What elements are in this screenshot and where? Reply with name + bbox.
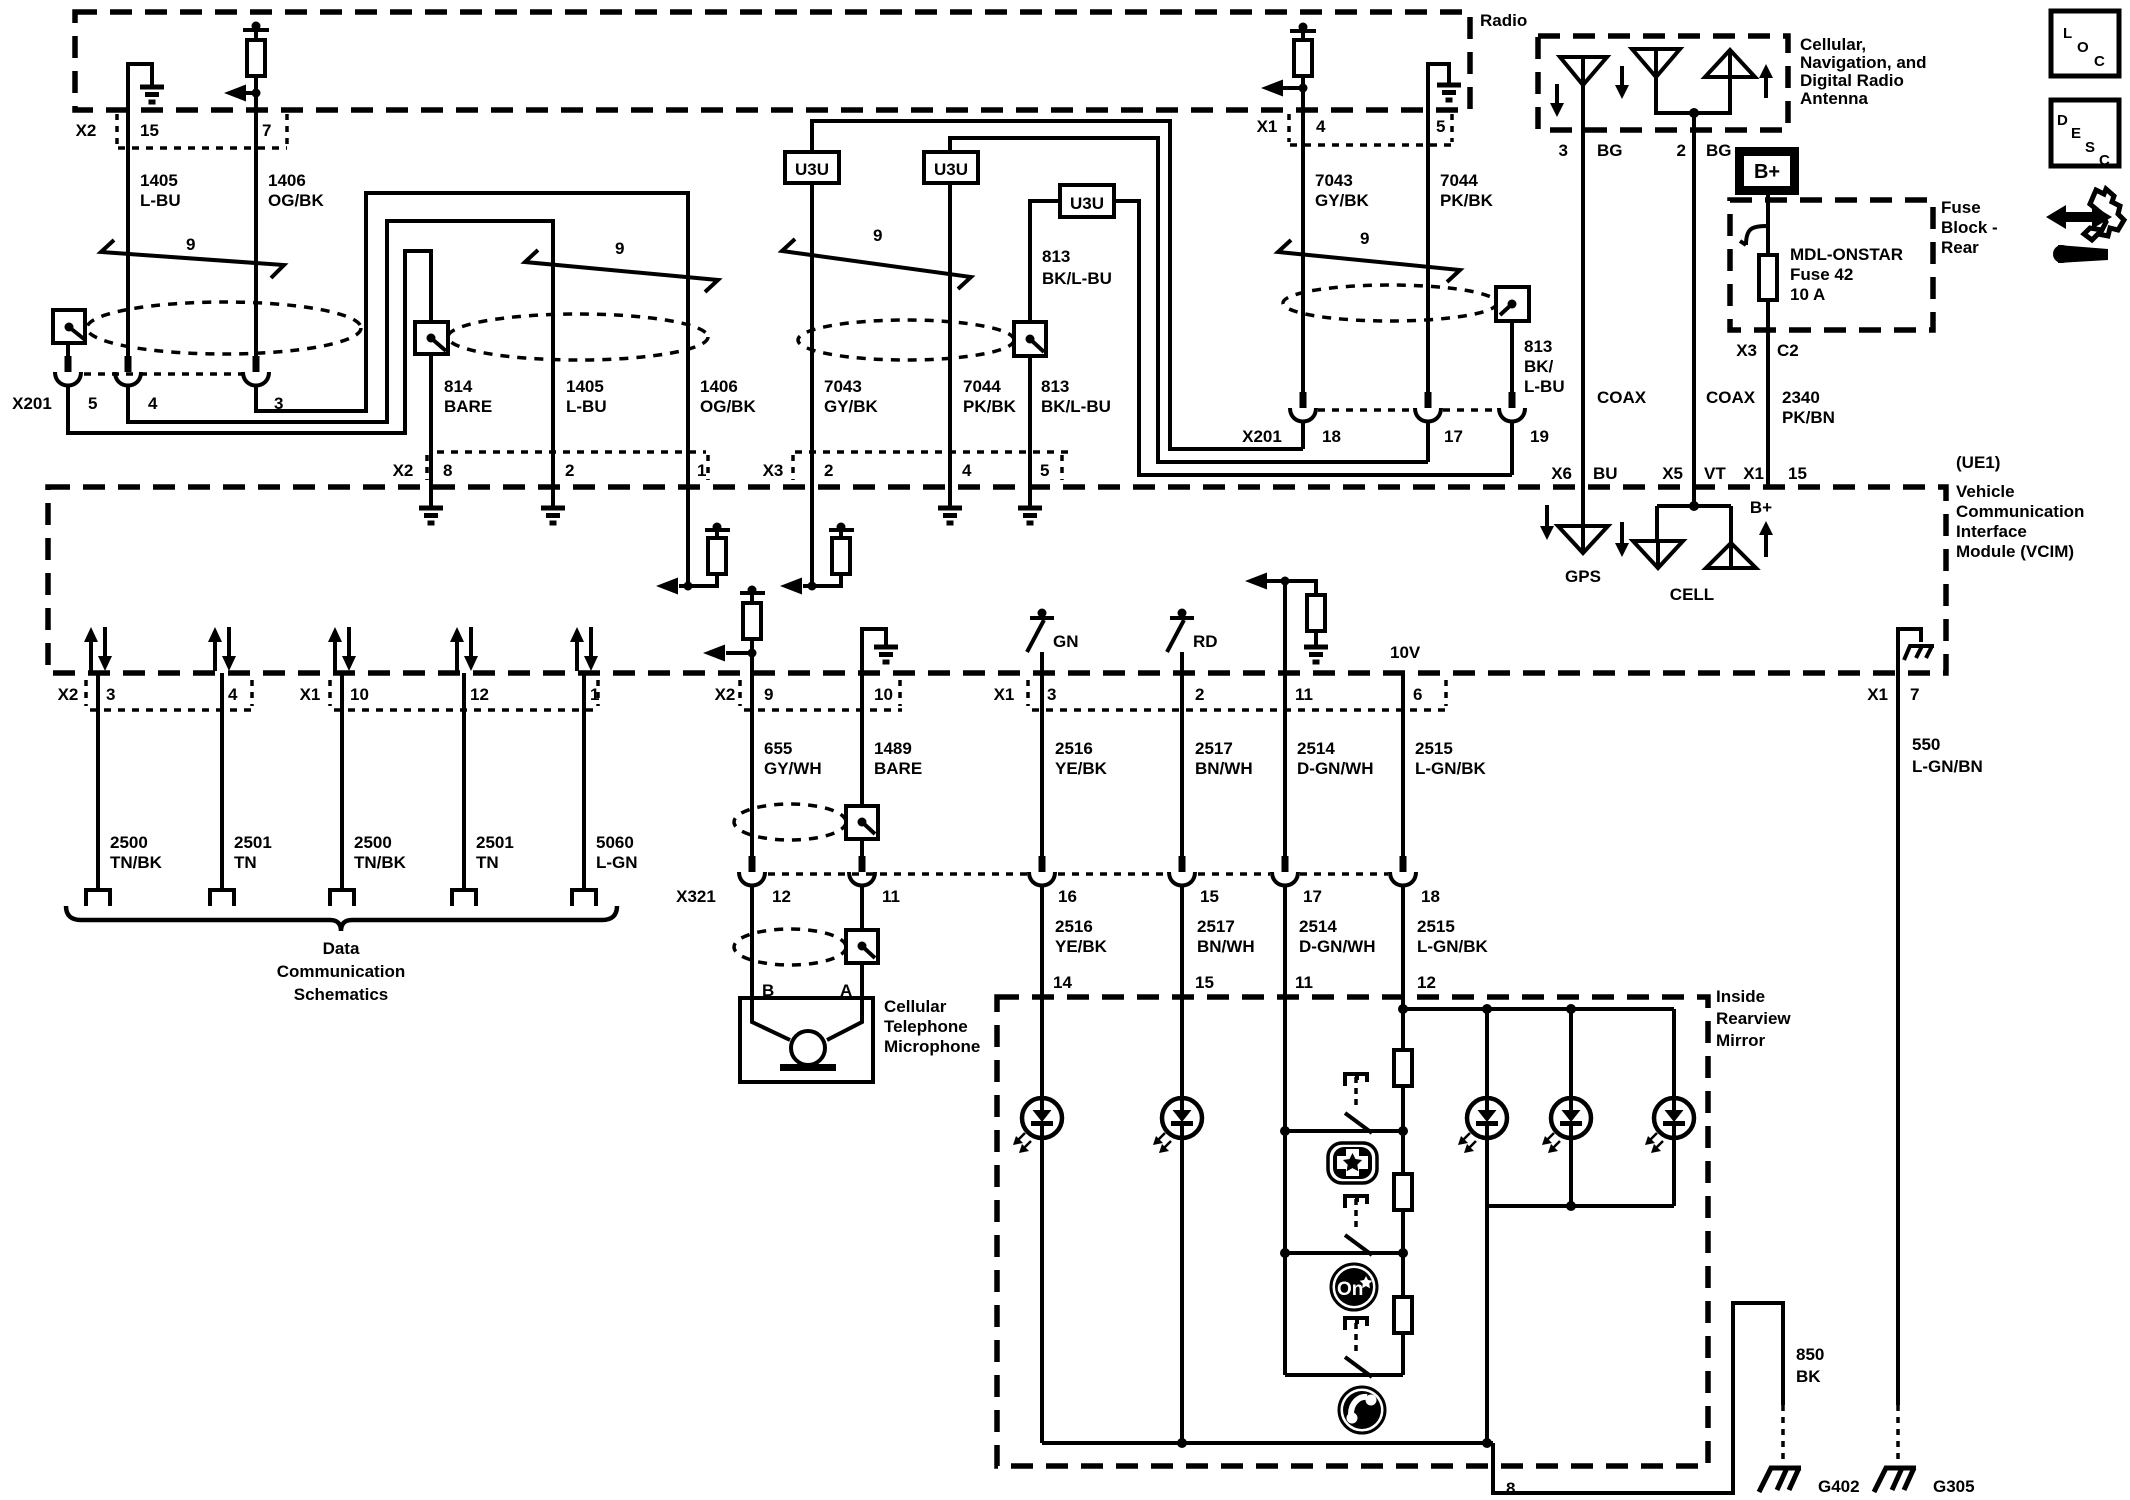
svg-text:Cellular,: Cellular,	[1800, 35, 1866, 54]
svg-text:C: C	[2099, 152, 2110, 169]
wire 7043 GY/BK (radio X1:4 to X201:18)	[1301, 110, 1305, 392]
svg-text:7044: 7044	[963, 377, 1001, 396]
svg-text:2517: 2517	[1195, 739, 1233, 758]
svg-text:2: 2	[565, 461, 574, 480]
LED (map lamp 1)	[1458, 1009, 1507, 1206]
svg-text:9: 9	[1360, 229, 1369, 248]
shield drain box (left, 814)	[53, 310, 85, 357]
svg-text:L-GN/BN: L-GN/BN	[1912, 757, 1983, 776]
label Fuse Block - Rear	[1941, 198, 1998, 257]
svg-text:813: 813	[1042, 247, 1070, 266]
wire 550 L-GN/BN (X1:7 to G305)	[1898, 673, 1983, 1462]
DESC reference box	[2051, 100, 2119, 169]
svg-text:X2: X2	[58, 685, 79, 704]
svg-text:Navigation, and: Navigation, and	[1800, 53, 1927, 72]
ground (radio internal, pin X2:15)	[128, 64, 164, 110]
svg-text:X201: X201	[12, 394, 52, 413]
svg-text:Schematics: Schematics	[294, 985, 389, 1004]
twisted pair marker 9 (U3U)	[782, 226, 971, 289]
arrow down (CELL)	[1615, 522, 1629, 557]
svg-text:Mirror: Mirror	[1716, 1031, 1766, 1050]
antenna cellular (funnel)	[1560, 57, 1607, 85]
arrow up and B+ (VCIM internal X1:15)	[1750, 498, 1773, 557]
wire 850 BK (mirror pin 8 to G402)	[1493, 1303, 1783, 1498]
svg-text:4: 4	[228, 685, 238, 704]
wire COAX 2 (antenna to VCIM X5)	[1692, 113, 1696, 488]
svg-text:E: E	[2071, 125, 2081, 142]
wire stubs below X201 right cups	[1303, 421, 1512, 475]
svg-text:17: 17	[1303, 887, 1322, 906]
svg-text:10V: 10V	[1390, 643, 1421, 662]
svg-text:813: 813	[1524, 337, 1552, 356]
svg-text:U3U: U3U	[934, 160, 968, 179]
svg-text:Communication: Communication	[277, 962, 405, 981]
svg-text:11: 11	[1295, 973, 1313, 992]
svg-text:Communication: Communication	[1956, 502, 2084, 521]
svg-text:18: 18	[1421, 887, 1440, 906]
arrow down (GPS)	[1540, 505, 1554, 540]
svg-text:PK/BK: PK/BK	[963, 397, 1017, 416]
svg-text:C2: C2	[1777, 341, 1799, 360]
svg-text:11: 11	[1295, 685, 1313, 704]
svg-text:19: 19	[1530, 427, 1549, 446]
label 1405 L-BU	[140, 171, 181, 210]
wire COAX 1 (antenna to VCIM X6)	[1581, 85, 1585, 488]
twisted pair marker 9 (right)	[1278, 229, 1460, 282]
svg-text:Vehicle: Vehicle	[1956, 482, 2015, 501]
button OnStar (mirror)	[1331, 1264, 1377, 1310]
wire B+ to fuse	[1766, 195, 1770, 255]
connector dotted line X2/X3	[437, 450, 1075, 454]
terminal (2500 b)	[330, 890, 354, 906]
resistor (2515 rail mid)	[1394, 1131, 1412, 1253]
switch rung 2 (mirror)	[1280, 1196, 1408, 1258]
label 7044 PK/BK	[1440, 171, 1494, 210]
svg-text:RD: RD	[1193, 632, 1218, 651]
svg-text:C: C	[2094, 53, 2105, 70]
svg-text:On: On	[1337, 1279, 1363, 1300]
data arrows (VCIM internal, X2:3)	[84, 627, 112, 671]
Cellular Navigation Digital Radio Antenna box	[1538, 36, 1788, 130]
svg-text:813: 813	[1041, 377, 1069, 396]
svg-text:2517: 2517	[1197, 917, 1235, 936]
resistor to ground and arrow (VCIM internal, X1:11)	[1245, 573, 1328, 674]
antenna navigation (funnel)	[1632, 49, 1680, 77]
termination resistor and arrow (VCIM internal, X3:2)	[780, 487, 854, 595]
svg-text:BK/: BK/	[1524, 357, 1554, 376]
label 813 BK/ L-BU	[1524, 337, 1565, 396]
label 7044 PK/BK (above X3:4)	[963, 377, 1017, 416]
svg-text:BG: BG	[1597, 141, 1623, 160]
svg-text:15: 15	[1788, 464, 1807, 483]
wire 2500 TN/BK (X2:3)	[98, 673, 163, 890]
label (UE1) VCIM	[1956, 453, 2084, 561]
wire 7043 (U3U1 to X201:18 and X3:2)	[812, 121, 1303, 487]
B+ battery feed box	[1735, 147, 1799, 195]
connector X1 (VCIM bottom mid): pins 3, 2, 11, 6	[994, 680, 1448, 710]
data arrows (VCIM internal, X2:4)	[208, 627, 236, 671]
shield ellipse (left)	[87, 302, 361, 354]
svg-text:COAX: COAX	[1597, 388, 1647, 407]
svg-text:L: L	[2063, 25, 2072, 42]
svg-text:2516: 2516	[1055, 917, 1093, 936]
svg-text:G402: G402	[1818, 1477, 1860, 1496]
svg-text:850: 850	[1796, 1345, 1824, 1364]
svg-text:BK/L-BU: BK/L-BU	[1042, 269, 1112, 288]
svg-text:VT: VT	[1704, 464, 1726, 483]
shield drain box (mid, 814)	[415, 322, 448, 354]
navigation icon (arrow and wrench)	[2046, 189, 2124, 263]
shield ellipse (right)	[1283, 285, 1497, 321]
svg-text:Rear: Rear	[1941, 238, 1979, 257]
svg-text:PK/BN: PK/BN	[1782, 408, 1835, 427]
ground (VCIM internal, X2:8)	[419, 487, 443, 523]
svg-text:BK/L-BU: BK/L-BU	[1041, 397, 1111, 416]
svg-text:X1: X1	[1743, 464, 1764, 483]
shield drain box (813 at X201)	[1496, 287, 1529, 321]
data arrows (VCIM internal, X1:10)	[328, 627, 356, 671]
labels X201 18 17 19	[1242, 427, 1549, 446]
label 850 BK	[1796, 1345, 1824, 1386]
svg-text:5: 5	[88, 394, 97, 413]
shield ellipse (U3U)	[798, 320, 1014, 360]
svg-text:14: 14	[1053, 973, 1072, 992]
svg-text:BK: BK	[1796, 1367, 1821, 1386]
svg-text:9: 9	[873, 226, 882, 245]
svg-text:5060: 5060	[596, 833, 634, 852]
Cellular Telephone Microphone box	[740, 997, 980, 1082]
label Radio	[1480, 11, 1527, 30]
connector X2 (VCIM bottom mid): pins 9, 10	[715, 680, 902, 710]
svg-text:1: 1	[697, 461, 706, 480]
svg-text:L-BU: L-BU	[1524, 377, 1565, 396]
label 7043 GY/BK	[1315, 171, 1370, 210]
brace Data Communication Schematics	[66, 906, 617, 1004]
svg-text:Fuse: Fuse	[1941, 198, 1981, 217]
ground G402	[1759, 1468, 1860, 1496]
VCIM box	[48, 487, 1946, 673]
svg-text:7044: 7044	[1440, 171, 1478, 190]
svg-text:1489: 1489	[874, 739, 912, 758]
labels X321 12 11 16 15 17 18	[676, 887, 1440, 906]
svg-text:PK/BK: PK/BK	[1440, 191, 1494, 210]
terminal (2500)	[86, 890, 110, 906]
resistor (radio internal, pin X1:4)	[1290, 23, 1316, 111]
svg-text:X3: X3	[1736, 341, 1757, 360]
svg-text:Data: Data	[323, 939, 360, 958]
arrow down (antenna 1)	[1550, 84, 1564, 117]
labels X201 5 4 3	[12, 394, 283, 413]
svg-text:YE/BK: YE/BK	[1055, 937, 1108, 956]
svg-text:OG/BK: OG/BK	[268, 191, 324, 210]
resistor (2515 rail top)	[1394, 1009, 1412, 1131]
svg-text:L-GN/BK: L-GN/BK	[1417, 937, 1489, 956]
resistor (2515 rail low)	[1394, 1253, 1412, 1375]
shield drain box (1489 lower)	[846, 930, 878, 963]
svg-text:L-GN/BK: L-GN/BK	[1415, 759, 1487, 778]
pins 3 BG / 2 BG	[1559, 141, 1732, 160]
svg-text:TN/BK: TN/BK	[110, 853, 163, 872]
label antenna box	[1800, 35, 1927, 108]
shield drain box (1489 upper)	[846, 806, 878, 839]
wire 2340 PK/BN (fuse to VCIM X1:15)	[1766, 300, 1770, 488]
svg-text:(UE1): (UE1)	[1956, 453, 2000, 472]
wire 1489 A (X321:11 to microphone)	[860, 885, 864, 998]
label 814 BARE	[444, 377, 492, 416]
wire 655 GY/WH (X2:9 to X321:12)	[752, 673, 822, 856]
button phone (mirror)	[1339, 1387, 1385, 1433]
wire 2516 YE/BK (X1:3 to X321:16)	[1042, 673, 1108, 856]
connector X1 (VCIM bottom): pins 10, 12, 1	[300, 680, 600, 710]
wire 5060 L-GN (X1:1)	[584, 673, 638, 890]
svg-text:3: 3	[106, 685, 115, 704]
arrow (signal continues, radio pin X1:4)	[1261, 80, 1308, 97]
svg-text:X6: X6	[1551, 464, 1572, 483]
svg-text:X2: X2	[393, 461, 414, 480]
svg-text:Telephone: Telephone	[884, 1017, 968, 1036]
antenna digital radio (up triangle)	[1705, 50, 1755, 77]
svg-text:Inside: Inside	[1716, 987, 1765, 1006]
bus hook (fuse block)	[1740, 226, 1768, 245]
svg-text:655: 655	[764, 739, 792, 758]
svg-text:8: 8	[443, 461, 452, 480]
wire 2517 BN/WH (X321:15 to mirror 15)	[1182, 885, 1255, 1099]
svg-text:X1: X1	[1867, 685, 1888, 704]
GN switch (VCIM internal, X1:3)	[1027, 609, 1079, 674]
svg-text:3: 3	[1559, 141, 1568, 160]
svg-text:9: 9	[615, 239, 624, 258]
label 1405 L-BU	[566, 377, 607, 416]
label 813 BK/L-BU (above X3:5)	[1041, 377, 1111, 416]
junction 2515 branch	[1398, 1004, 1674, 1014]
CELL antenna (VCIM internal)	[1633, 488, 1756, 604]
svg-text:2: 2	[1195, 685, 1204, 704]
connector X321: caps and cups	[739, 856, 1416, 886]
svg-text:2514: 2514	[1299, 917, 1337, 936]
svg-text:814: 814	[444, 377, 473, 396]
connector X1:7 (VCIM bottom right)	[1867, 685, 1919, 704]
svg-text:X1: X1	[300, 685, 321, 704]
svg-text:Module (VCIM): Module (VCIM)	[1956, 542, 2074, 561]
pins B A	[762, 981, 852, 1000]
svg-text:Radio: Radio	[1480, 11, 1527, 30]
wire 813 (shield box to X201:19)	[1510, 321, 1514, 392]
wire antenna join	[1656, 77, 1730, 118]
svg-text:6: 6	[1413, 685, 1422, 704]
GPS antenna (VCIM internal)	[1558, 488, 1608, 586]
wire 2514 D-GN/WH (X321:17 to mirror 11)	[1285, 885, 1375, 1375]
twisted pair marker 9 (mid)	[525, 239, 718, 292]
fuse MDL-ONSTAR Fuse 42 10A	[1759, 245, 1903, 304]
svg-text:BARE: BARE	[444, 397, 492, 416]
svg-text:7: 7	[1910, 685, 1919, 704]
wire 814 BARE (X201:5 to X2:8)	[68, 251, 431, 487]
svg-text:U3U: U3U	[1070, 194, 1104, 213]
wire 2501 TN (X2:4)	[222, 673, 272, 890]
svg-text:550: 550	[1912, 735, 1940, 754]
svg-text:X5: X5	[1662, 464, 1683, 483]
arrow (signal continues, radio pin X2:7)	[224, 85, 261, 102]
wire 7044 (U3U2 to X201:17 and X3:4)	[950, 138, 1428, 487]
svg-text:4: 4	[1316, 117, 1326, 136]
svg-text:2: 2	[1677, 141, 1686, 160]
svg-text:2500: 2500	[354, 833, 392, 852]
wire 2501 TN (X1:12)	[464, 673, 514, 890]
label 813 BK/L-BU (upper)	[1042, 247, 1112, 288]
terminal (2501 b)	[452, 890, 476, 906]
termination resistor and arrow (VCIM internal, X2:9)	[703, 586, 765, 674]
twisted pair marker 9 (left)	[101, 235, 284, 278]
label 7043 GY/BK (above X3:2)	[824, 377, 879, 416]
label 1406 OG/BK	[700, 377, 756, 416]
svg-text:GY/BK: GY/BK	[1315, 191, 1370, 210]
wire 1406 (X201:3 to X2:1)	[256, 193, 688, 487]
U3U option box 3	[1060, 185, 1114, 217]
wire 1405 (X201:4 to X2:2)	[128, 221, 553, 487]
svg-text:D-GN/WH: D-GN/WH	[1299, 937, 1375, 956]
wire 1489 BARE (X2:10 to X321:11)	[862, 673, 922, 856]
svg-text:5: 5	[1040, 461, 1049, 480]
svg-text:15: 15	[140, 121, 159, 140]
svg-text:Rearview: Rearview	[1716, 1009, 1791, 1028]
svg-text:1406: 1406	[700, 377, 738, 396]
data arrows (VCIM internal, X1:1)	[570, 627, 598, 671]
terminal (5060)	[572, 890, 596, 906]
svg-text:2516: 2516	[1055, 739, 1093, 758]
svg-text:7043: 7043	[824, 377, 862, 396]
label Inside Rearview Mirror	[1716, 987, 1791, 1050]
shield ellipse (mid)	[448, 314, 708, 360]
svg-text:OG/BK: OG/BK	[700, 397, 756, 416]
svg-text:TN: TN	[476, 853, 499, 872]
ground (VCIM internal, X3:5)	[1018, 487, 1042, 523]
svg-text:X1: X1	[994, 685, 1015, 704]
svg-text:2340: 2340	[1782, 388, 1820, 407]
LED (map lamp 3)	[1645, 1009, 1694, 1206]
svg-text:L-BU: L-BU	[140, 191, 181, 210]
svg-text:L-BU: L-BU	[566, 397, 607, 416]
label 10V (X1:6)	[1390, 643, 1421, 662]
LED bottom bus	[1487, 1201, 1674, 1443]
wire 2515 L-GN/BK (X321:18 to mirror 12)	[1403, 885, 1489, 1048]
connector X2 (VCIM bottom): pins 3, 4	[58, 680, 256, 710]
svg-text:Interface: Interface	[1956, 522, 2027, 541]
svg-text:10: 10	[350, 685, 369, 704]
wire 2500 TN/BK (X1:10)	[342, 673, 407, 890]
shield ellipse (655/1489 lower)	[734, 929, 846, 965]
svg-text:10 A: 10 A	[1790, 285, 1825, 304]
LED (mirror, wire 15)	[1153, 1098, 1202, 1443]
pins X3 C2	[1736, 341, 1799, 360]
svg-text:D-GN/WH: D-GN/WH	[1297, 759, 1373, 778]
svg-text:9: 9	[764, 685, 773, 704]
U3U option box 2	[924, 152, 978, 183]
microphone symbol	[752, 998, 862, 1071]
svg-text:BU: BU	[1593, 464, 1618, 483]
terminal (2501)	[210, 890, 234, 906]
LED (map lamp 2)	[1542, 1009, 1591, 1206]
svg-text:4: 4	[962, 461, 972, 480]
connector X1 (radio): pins 4, 5	[1257, 114, 1452, 145]
svg-text:X3: X3	[763, 461, 784, 480]
wire 7044 PK/BK (radio X1:5 to X201:17)	[1426, 110, 1430, 392]
svg-text:2515: 2515	[1415, 739, 1453, 758]
svg-text:G305: G305	[1933, 1477, 1975, 1496]
svg-text:1406: 1406	[268, 171, 306, 190]
svg-text:YE/BK: YE/BK	[1055, 759, 1108, 778]
connector X2 (VCIM): pins 8, 2, 1	[393, 455, 708, 480]
connector X2 (radio): pins 15, 7	[76, 114, 287, 148]
svg-text:2515: 2515	[1417, 917, 1455, 936]
svg-text:CELL: CELL	[1670, 585, 1714, 604]
shield drain box (813 at X3)	[1014, 322, 1046, 356]
svg-text:BN/WH: BN/WH	[1197, 937, 1255, 956]
svg-text:X2: X2	[715, 685, 736, 704]
svg-text:B+: B+	[1754, 161, 1780, 183]
resistor (radio internal, pin X2:7)	[243, 22, 269, 111]
svg-text:2501: 2501	[476, 833, 514, 852]
svg-text:2514: 2514	[1297, 739, 1335, 758]
ground (VCIM internal, X3:4)	[938, 487, 962, 523]
svg-text:D: D	[2057, 112, 2068, 129]
wire 2517 BN/WH (X1:2 to X321:15)	[1182, 673, 1253, 856]
LOC reference box	[2051, 11, 2119, 76]
label 1406 OG/BK	[268, 171, 324, 210]
svg-text:TN: TN	[234, 853, 257, 872]
svg-text:Fuse 42: Fuse 42	[1790, 265, 1853, 284]
svg-text:S: S	[2085, 139, 2095, 156]
svg-text:L-GN: L-GN	[596, 853, 638, 872]
button star (mirror)	[1328, 1143, 1377, 1183]
svg-text:BARE: BARE	[874, 759, 922, 778]
arrow up (antenna 3)	[1759, 64, 1773, 98]
svg-text:12: 12	[470, 685, 489, 704]
ground (radio internal, pin X1:5)	[1428, 64, 1461, 110]
svg-text:Microphone: Microphone	[884, 1037, 980, 1056]
svg-text:X201: X201	[1242, 427, 1282, 446]
connector X3 (VCIM): pins 2, 4, 5	[763, 455, 1062, 480]
connector X201 right: caps and cups pins 18, 17, 19	[1290, 392, 1525, 422]
svg-text:7: 7	[262, 121, 271, 140]
wire 2515 L-GN/BK (X1:6 to X321:18)	[1403, 673, 1487, 856]
shield ellipse (655/1489 upper)	[734, 804, 846, 840]
data arrows (VCIM internal, X1:12)	[450, 627, 478, 671]
svg-text:BG: BG	[1706, 141, 1732, 160]
svg-text:10: 10	[874, 685, 893, 704]
svg-text:15: 15	[1195, 973, 1214, 992]
Radio box	[75, 12, 1470, 110]
ground G305	[1874, 1468, 1975, 1496]
svg-text:2501: 2501	[234, 833, 272, 852]
svg-text:Antenna: Antenna	[1800, 89, 1869, 108]
LED (mirror, wire 14)	[1013, 1098, 1062, 1443]
ground (VCIM internal, X2:2)	[541, 487, 565, 523]
svg-text:O: O	[2077, 39, 2089, 56]
wire 2516 YE/BK (X321:16 to mirror 14)	[1042, 885, 1108, 1099]
termination resistor and arrow (VCIM internal, X2:1)	[656, 487, 730, 595]
svg-text:COAX: COAX	[1706, 388, 1756, 407]
RD switch (VCIM internal, X1:2)	[1167, 609, 1218, 674]
svg-text:MDL-ONSTAR: MDL-ONSTAR	[1790, 245, 1903, 264]
Fuse Block Rear box	[1730, 200, 1933, 330]
chassis ground (VCIM internal, X1:7)	[1898, 629, 1934, 673]
U3U option box 1	[785, 152, 839, 183]
svg-text:GY/BK: GY/BK	[824, 397, 879, 416]
svg-text:12: 12	[1417, 973, 1436, 992]
svg-text:1405: 1405	[566, 377, 604, 396]
svg-text:15: 15	[1200, 887, 1219, 906]
svg-text:X2: X2	[76, 121, 97, 140]
